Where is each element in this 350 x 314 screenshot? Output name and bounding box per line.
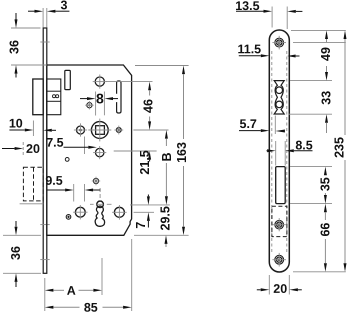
svg-text:9.5: 9.5 bbox=[45, 174, 62, 188]
dim 5.7 arrows bbox=[239, 130, 261, 132]
dim A line+arrows bbox=[45, 289, 54, 292]
svg-text:33: 33 bbox=[319, 91, 333, 105]
dim 36 top arrows bbox=[15, 13, 17, 20]
dim 85 line+arrows bbox=[45, 306, 54, 309]
dim 7 arrows bbox=[147, 195, 149, 197]
dim 36 top ext lines bbox=[11, 27, 41, 29]
faceplate front outline bbox=[269, 30, 289, 272]
right ext line cutout bottom bbox=[289, 113, 332, 115]
svg-text:8: 8 bbox=[96, 90, 104, 106]
svg-text:5.7: 5.7 bbox=[240, 117, 257, 131]
svg-text:46: 46 bbox=[141, 99, 155, 113]
ext line 85 right (case back) bbox=[131, 239, 133, 311]
right ext line deadbolt top bbox=[290, 166, 332, 168]
dim 8 ext lines bbox=[95, 92, 97, 116]
top screw bbox=[275, 38, 284, 47]
keyhole vertical center dash bbox=[99, 188, 101, 201]
ext line 5.7 bbox=[274, 116, 276, 135]
dim 8 arrows bbox=[80, 98, 87, 100]
dim 7.5 ext tick bbox=[84, 137, 86, 155]
keyhole datum line right of case bbox=[130, 204, 170, 206]
svg-text:235: 235 bbox=[333, 137, 347, 158]
deadbolt thrown position (dashed) bbox=[23, 167, 43, 201]
keyhole horizontal center dashes bbox=[90, 203, 94, 205]
spindle hub (square follower) bbox=[91, 122, 108, 139]
svg-text:10: 10 bbox=[9, 116, 23, 130]
faceplate screw position tick top bbox=[40, 41, 49, 43]
dim 8.5 ext lines bbox=[275, 141, 277, 166]
dim 13.5 ext lines bbox=[271, 7, 273, 28]
dim 29.5 arrow bbox=[165, 235, 168, 244]
svg-text:7: 7 bbox=[134, 222, 148, 229]
keyhole circle bbox=[97, 201, 104, 208]
svg-text:36: 36 bbox=[8, 40, 22, 54]
deadbolt cutout bbox=[276, 167, 286, 204]
svg-text:20: 20 bbox=[26, 142, 40, 156]
dim 13.5 arrows bbox=[236, 10, 264, 12]
latch follower block inside case bbox=[47, 79, 61, 115]
svg-text:13.5: 13.5 bbox=[235, 0, 259, 13]
svg-text:21.5: 21.5 bbox=[138, 150, 152, 174]
svg-text:35: 35 bbox=[318, 177, 332, 191]
svg-text:11.5: 11.5 bbox=[237, 42, 261, 56]
right ext line deadbolt bottom bbox=[290, 203, 332, 205]
dim B line+arrows bbox=[165, 130, 168, 139]
dim 3 extension lines bbox=[42, 8, 44, 28]
svg-text:7.5: 7.5 bbox=[46, 136, 63, 150]
latch cutout circle 1 bbox=[276, 87, 283, 94]
ext line follower hole bbox=[106, 81, 153, 83]
latch cutout circle 2 bbox=[276, 101, 283, 108]
ext line hole below spindle bbox=[114, 150, 157, 152]
dim 10 line+arrows bbox=[9, 129, 24, 131]
right ext line plate bottom bbox=[293, 271, 346, 273]
svg-text:163: 163 bbox=[175, 142, 189, 163]
ext line A right (spindle) bbox=[101, 258, 103, 295]
dim 9.5 arrows bbox=[48, 189, 66, 191]
ext line spindle bbox=[133, 129, 168, 131]
dim 21.5 arrows bbox=[148, 151, 151, 160]
hole left of spindle bbox=[77, 126, 85, 134]
svg-text:A: A bbox=[67, 284, 76, 298]
bottom row hole right bbox=[114, 207, 124, 217]
right ext line screw top bbox=[293, 42, 346, 44]
faceplate inner fold lines bbox=[271, 51, 273, 253]
small plain hole bbox=[65, 158, 69, 162]
hole below spindle bbox=[96, 148, 104, 156]
hole right of spindle bbox=[116, 128, 121, 133]
svg-text:49: 49 bbox=[319, 47, 333, 61]
dim 49 line+arrows bbox=[325, 30, 328, 39]
right ext line cutout top bbox=[290, 80, 332, 82]
svg-text:36: 36 bbox=[9, 246, 23, 260]
ext line case top right bbox=[135, 65, 189, 67]
ext line case bottom right bbox=[134, 234, 189, 236]
faceplate screw position tick bottom bbox=[40, 259, 49, 261]
dim 20 arrows bbox=[257, 289, 261, 291]
dim 8.5 arrows bbox=[266, 150, 269, 152]
follower hole bbox=[95, 77, 104, 86]
faceplate screw position tick middle bbox=[40, 224, 49, 226]
dim 36 bottom arrows bbox=[15, 221, 17, 227]
dim 36 bottom ext lines bbox=[3, 234, 41, 236]
faceplate (forend, edge view) bbox=[43, 28, 47, 273]
dim 20 line+arrow bbox=[2, 148, 15, 150]
dim 66 line+arrows bbox=[324, 204, 327, 213]
dim 46 line+arrows bbox=[148, 82, 151, 91]
keyhole datum line left of faceplate bbox=[20, 203, 44, 205]
bottom row hole left bbox=[75, 207, 85, 217]
dim 7.5 arrow bbox=[64, 146, 89, 148]
dim 20 ext lines bbox=[268, 275, 270, 295]
small hole with dot 2 bbox=[93, 178, 98, 183]
middle screw bbox=[275, 220, 284, 229]
slot near faceplate bbox=[65, 70, 71, 89]
lock case outline bbox=[47, 65, 132, 235]
svg-text:3: 3 bbox=[61, 0, 68, 12]
svg-text:B: B bbox=[160, 152, 174, 161]
dim 235 line+arrows bbox=[344, 30, 347, 39]
dim 35 line+arrows bbox=[324, 167, 327, 176]
dim 10 ext tick bbox=[32, 121, 34, 137]
dim 163 line+arrows bbox=[182, 66, 185, 75]
keyhole bit profile bbox=[95, 206, 104, 226]
ext line bottom holes row bbox=[134, 211, 154, 213]
right slot in case bbox=[117, 81, 121, 113]
optional screw dashed box bbox=[272, 206, 287, 236]
right ext line plate top bbox=[291, 29, 346, 31]
dim 33 arrow bbox=[325, 114, 328, 123]
dim 20 ext tick dashed bbox=[22, 142, 24, 156]
bottom screw bbox=[275, 255, 284, 264]
dim 9.5 ext ticks bbox=[73, 184, 75, 202]
dim 3 line+arrows bbox=[28, 10, 35, 12]
svg-text:66: 66 bbox=[318, 223, 332, 237]
small hole with dot bbox=[87, 103, 92, 108]
latch bolt (protruding) bbox=[33, 79, 43, 115]
latch adjustment cutout bbox=[274, 81, 284, 114]
dim 11.5 arrows bbox=[239, 55, 261, 57]
bottom row small hole with dot bbox=[66, 215, 71, 220]
svg-text:85: 85 bbox=[84, 301, 98, 314]
latch spring detail oo bbox=[53, 95, 56, 98]
ext line A left bbox=[44, 278, 46, 311]
svg-text:20: 20 bbox=[273, 282, 287, 296]
svg-text:29.5: 29.5 bbox=[158, 206, 172, 230]
svg-text:8.5: 8.5 bbox=[295, 138, 312, 152]
